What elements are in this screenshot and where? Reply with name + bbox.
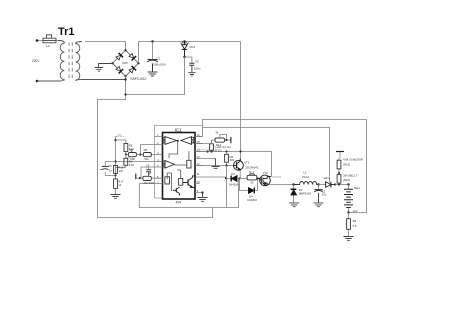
node secondary-bottom junction xyxy=(124,78,126,80)
wire pin11 row xyxy=(195,177,231,179)
wire opamp to block xyxy=(175,151,189,165)
resistor R17 xyxy=(114,176,118,195)
wire VT3 emitter to pin11 row xyxy=(239,171,241,179)
wire comparator junction down xyxy=(169,141,178,158)
capacitor C5 loop xyxy=(100,162,115,176)
wire to battery xyxy=(335,184,349,186)
svg-text:1N4818: 1N4818 xyxy=(229,182,239,186)
wire mains top xyxy=(37,40,62,42)
svg-text:0.3: 0.3 xyxy=(353,224,357,228)
wire ref row y151 xyxy=(195,152,272,177)
svg-text:C1: C1 xyxy=(157,57,161,61)
svg-text:36: 36 xyxy=(250,180,254,184)
svg-text:VT2: VT2 xyxy=(263,171,269,175)
potentiometer R14 xyxy=(203,135,227,144)
svg-text:Tr1: Tr1 xyxy=(58,26,75,38)
node comparators junction xyxy=(177,140,179,142)
IC pin stubs left xyxy=(116,137,163,184)
IC1 box xyxy=(163,133,196,200)
node mains L terminal xyxy=(36,39,39,42)
IC internal transistor xyxy=(183,176,195,188)
svg-text:51k: 51k xyxy=(144,157,149,161)
node R9 bottom xyxy=(225,164,227,166)
svg-text:220V: 220V xyxy=(32,59,40,63)
node R14 right xyxy=(225,139,227,141)
node LED-negative junction xyxy=(124,93,126,95)
wire pin16 riser and feedback top W2 xyxy=(195,120,367,213)
svg-text:(R13): (R13) xyxy=(215,148,222,152)
ground C2 xyxy=(314,203,324,207)
svg-text:3300u/25V: 3300u/25V xyxy=(152,63,167,67)
svg-text:L1: L1 xyxy=(304,171,308,175)
resistor R6 xyxy=(116,155,128,168)
ground at bridge AC xyxy=(95,64,113,72)
svg-text:C4: C4 xyxy=(146,163,150,167)
svg-text:(R10): (R10) xyxy=(343,178,350,182)
wire top positive rail xyxy=(139,42,241,64)
svg-text:C5: C5 xyxy=(108,164,112,168)
node battery top xyxy=(347,183,349,185)
svg-text:15: 15 xyxy=(196,140,200,144)
resistor R5 xyxy=(124,144,128,155)
node pin6 row xyxy=(139,177,141,179)
svg-text:12: 12 xyxy=(196,162,200,166)
terminal T plate right of R14 xyxy=(227,137,231,143)
svg-text:R8: R8 xyxy=(353,219,357,223)
svg-text:1A: 1A xyxy=(46,44,50,48)
resistor R12 xyxy=(240,174,258,180)
node VD1 bottom xyxy=(183,56,185,58)
capacitor C4 xyxy=(146,167,151,177)
IC internal comparator left xyxy=(163,137,177,145)
svg-text:+5V: +5V xyxy=(117,133,122,137)
pin numbers left xyxy=(157,133,159,184)
ground C6 xyxy=(188,73,195,76)
svg-text:VD2: VD2 xyxy=(323,176,329,180)
svg-text:VD1: VD1 xyxy=(189,45,195,49)
svg-text:VT3: VT3 xyxy=(244,160,250,164)
wire bottom loop LB1 xyxy=(98,208,213,218)
node VD1 top xyxy=(183,40,185,42)
wire pin15 riser xyxy=(195,143,203,145)
svg-text:22u: 22u xyxy=(322,193,327,197)
svg-text:1N4822: 1N4822 xyxy=(247,198,257,202)
resistor R8h xyxy=(141,153,152,157)
IC internal opamp xyxy=(163,161,174,169)
svg-text:100u: 100u xyxy=(194,67,201,71)
transformer Tr1 primary winding xyxy=(37,41,64,82)
capacitor C1 xyxy=(147,42,158,73)
wire bridge negative loop left rail xyxy=(98,76,126,217)
ground pin9 xyxy=(198,193,208,202)
resistor R18 xyxy=(140,176,151,180)
node pin11 row a xyxy=(225,177,227,179)
wire row to VD2 xyxy=(319,184,326,186)
terminal +5V dashes xyxy=(116,137,118,141)
IC internal transistor bottom xyxy=(173,187,180,195)
node R12 out xyxy=(256,177,258,179)
svg-text:20k R18: 20k R18 xyxy=(144,181,155,185)
resistor R10 xyxy=(337,173,341,185)
node ref row c xyxy=(225,150,227,152)
bridge diode bottom-right xyxy=(128,66,136,74)
resistor R15 xyxy=(337,159,341,174)
wire +V vertical x240 xyxy=(240,42,242,162)
bridge diode top-left xyxy=(115,53,123,61)
wire VD1 cathode down to negative xyxy=(126,57,185,95)
svg-text:33uH: 33uH xyxy=(302,175,309,179)
IC pin stubs right xyxy=(195,137,216,193)
capacitor C6 xyxy=(185,57,195,73)
wire rect3 up xyxy=(167,170,181,191)
transistor VT3 xyxy=(234,159,244,171)
node divider bottom xyxy=(114,174,116,176)
diode D2 freewheel xyxy=(291,185,297,203)
svg-text:MBR5100: MBR5100 xyxy=(299,192,312,196)
left rail x115.6 xyxy=(115,140,117,179)
node divider top xyxy=(114,160,116,162)
node R10 bottom row xyxy=(338,183,340,185)
inductor L1 xyxy=(294,182,319,185)
svg-text:4.8k (3.9k)330R: 4.8k (3.9k)330R xyxy=(343,157,363,161)
wire bottom loop LB2 xyxy=(139,166,238,208)
node left rail top xyxy=(114,139,116,141)
svg-text:D3: D3 xyxy=(231,172,235,176)
node mains N terminal xyxy=(36,80,39,83)
svg-text:14: 14 xyxy=(196,148,200,152)
node ref row d xyxy=(239,150,241,152)
ground D2 xyxy=(289,203,299,207)
svg-text:IRF540: IRF540 xyxy=(272,175,282,179)
ground C1 xyxy=(148,72,158,76)
IC internal resistor rect3 xyxy=(179,178,183,185)
bridge rectifier VD5 KBPC1510 xyxy=(113,50,139,76)
node R5 bottom xyxy=(125,153,127,155)
IC internal block rect xyxy=(187,160,191,168)
resistor R16 xyxy=(114,165,118,173)
node R15 R10 junction xyxy=(338,172,340,174)
svg-text:2SC4664C: 2SC4664C xyxy=(245,165,259,169)
wire pin2 riser xyxy=(140,145,142,155)
node pin9 xyxy=(201,191,203,193)
resistor R8 shunt xyxy=(347,213,351,237)
terminal T plate pin6 xyxy=(136,174,140,180)
transformer Tr1 core xyxy=(69,43,72,80)
wire secondary top to bridge xyxy=(85,42,126,51)
svg-text:10: 10 xyxy=(196,180,200,184)
LED VD1 xyxy=(181,42,189,58)
svg-text:13: 13 xyxy=(196,155,200,159)
potentiometer R7 xyxy=(126,150,141,157)
svg-text:KBPC1510: KBPC1510 xyxy=(131,77,147,81)
node D3 out xyxy=(238,177,240,179)
wire mains bottom xyxy=(37,80,62,82)
bridge diode top-right xyxy=(128,53,136,61)
ground R17 xyxy=(111,195,121,199)
node battery bottom xyxy=(347,211,349,213)
node bridge left xyxy=(111,62,113,64)
node bridge right xyxy=(137,62,139,64)
svg-text:Bat1: Bat1 xyxy=(354,186,360,190)
svg-text:300: 300 xyxy=(230,158,235,162)
diode D4 bypass xyxy=(240,179,258,194)
node bridge bottom xyxy=(124,75,126,77)
MOSFET VT2 xyxy=(258,175,272,186)
svg-text:R7: R7 xyxy=(130,148,134,152)
wire VT2 out row y185 xyxy=(269,184,294,186)
node ref row b xyxy=(210,150,212,152)
battery GB1 xyxy=(344,185,353,213)
resistor R13 xyxy=(210,140,214,152)
diode D3 xyxy=(231,176,239,182)
wire feedback W3 xyxy=(203,128,330,183)
svg-text:C6: C6 xyxy=(195,60,199,64)
svg-text:1u: 1u xyxy=(109,168,113,172)
ground pin13 xyxy=(212,159,220,169)
frame around IC xyxy=(155,126,203,199)
IC internal comparator right xyxy=(181,137,194,145)
node R7 right xyxy=(139,153,141,155)
svg-text:R12: R12 xyxy=(249,170,255,174)
wire to R5 xyxy=(116,140,126,144)
bridge diode bottom-left xyxy=(115,66,123,74)
svg-text:2k: 2k xyxy=(216,131,220,135)
svg-text:R14: R14 xyxy=(216,143,222,147)
svg-text:5.1k: 5.1k xyxy=(129,163,135,167)
svg-text:R8: R8 xyxy=(144,148,148,152)
node bridge top xyxy=(124,49,126,51)
wire VT3 base row xyxy=(195,165,234,167)
ground R8 xyxy=(344,237,354,241)
svg-text:43k: 43k xyxy=(119,169,124,173)
svg-text:VD5: VD5 xyxy=(122,61,128,65)
node C1 top xyxy=(151,40,153,42)
svg-text:12V: 12V xyxy=(353,209,358,213)
transformer Tr1 secondary winding xyxy=(76,42,126,81)
svg-text:11: 11 xyxy=(196,172,199,176)
terminal T plate above R15 xyxy=(336,152,344,159)
diode VD2 xyxy=(326,182,335,188)
pin numbers right xyxy=(196,133,200,193)
capacitor C2 xyxy=(314,185,322,203)
svg-text:16: 16 xyxy=(196,133,200,137)
IC internal resistor rect2 xyxy=(165,177,170,184)
fuse F1 xyxy=(43,35,56,43)
node C2 top xyxy=(317,183,319,185)
svg-text:494: 494 xyxy=(176,201,182,205)
svg-text:IC1: IC1 xyxy=(175,127,182,132)
node ref row a xyxy=(206,150,208,152)
node after VD2 xyxy=(334,183,336,185)
resistor R9 xyxy=(225,152,229,166)
node D2 top xyxy=(292,183,294,185)
svg-text:(R15): (R15) xyxy=(343,162,350,166)
